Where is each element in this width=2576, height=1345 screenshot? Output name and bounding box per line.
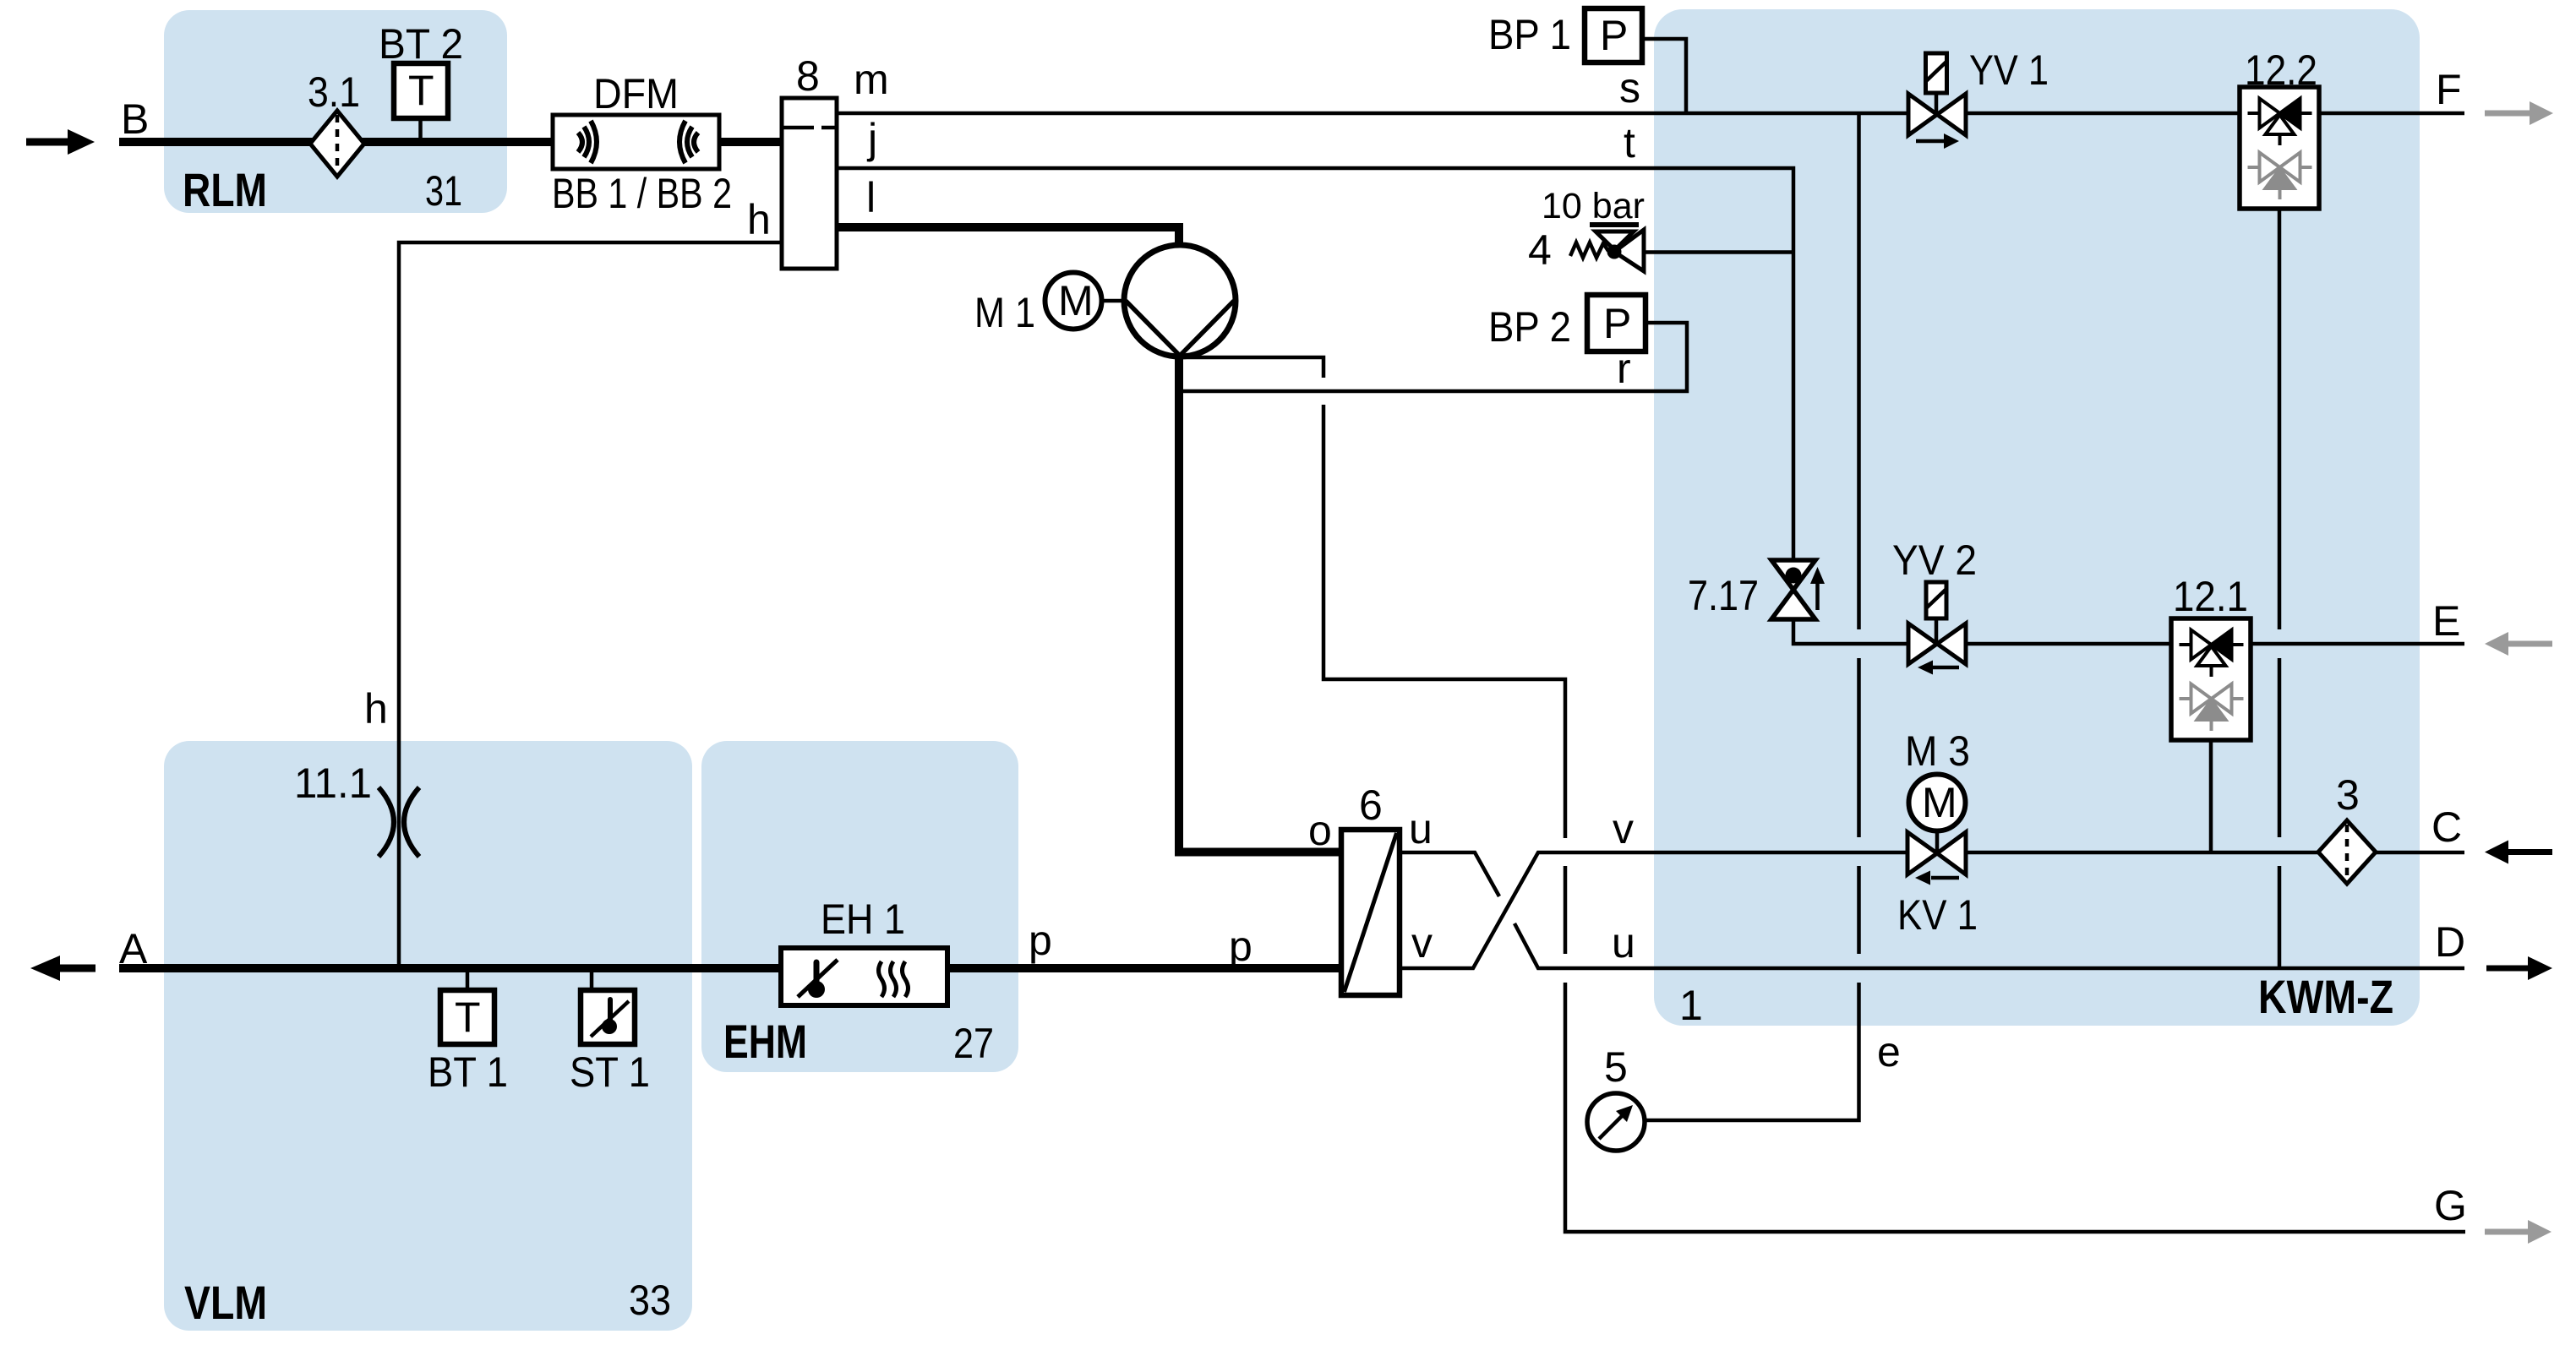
svg-text:KWM-Z: KWM-Z: [2258, 970, 2393, 1023]
motor valve KV 1 with motor M 3: [1907, 775, 1966, 885]
svg-text:VLM: VLM: [184, 1276, 267, 1329]
svg-text:e: e: [1877, 1028, 1901, 1075]
svg-text:3.1: 3.1: [308, 68, 360, 116]
svg-text:BT 1: BT 1: [428, 1048, 508, 1096]
svg-text:p: p: [1029, 917, 1052, 964]
svg-text:u: u: [1409, 805, 1433, 852]
valve assembly 12.2: [2240, 87, 2319, 209]
wire e: port F branch down to gauge 5 (with crossing hops): [1857, 113, 1861, 629]
svg-text:P: P: [1603, 300, 1631, 347]
wire BP 1 sensing line: [1642, 39, 1686, 113]
pipe break symbol 11.1: [379, 787, 419, 857]
filter 3 (diamond with dashed line): [2318, 820, 2376, 884]
svg-text:E: E: [2432, 597, 2460, 645]
svg-text:11.1: 11.1: [294, 760, 372, 807]
svg-text:C: C: [2431, 803, 2462, 851]
svg-text:27: 27: [953, 1020, 994, 1067]
wire m-s-F: distributor 8 to port F: [837, 112, 2464, 116]
port arrow A (outlet, black): [30, 956, 60, 981]
svg-text:v: v: [1411, 919, 1433, 967]
svg-text:u: u: [1612, 919, 1635, 967]
svg-text:l: l: [866, 174, 876, 221]
port arrow C (inlet, black): [2485, 841, 2508, 864]
svg-text:j: j: [866, 115, 877, 162]
svg-text:BB 1 / BB 2: BB 1 / BB 2: [552, 170, 732, 217]
distributor 8 (vertical vessel): [782, 98, 837, 269]
temperature sensor BT 1: [440, 972, 494, 1044]
wire A: outlet line through EH 1 (thick) node A: [119, 964, 783, 972]
wire l: distributor 8 to pump M1 (thick): [837, 227, 1179, 248]
module box KWM-Z: [1654, 9, 2420, 1026]
svg-text:RLM: RLM: [183, 163, 267, 216]
svg-text:r: r: [1617, 345, 1631, 392]
wire p: EH 1 to heat exchanger 6 (thick): [945, 964, 1344, 972]
svg-text:5: 5: [1604, 1043, 1628, 1091]
svg-text:BT 2: BT 2: [379, 20, 463, 68]
module box EHM: [701, 741, 1018, 1072]
module box RLM: [164, 10, 507, 213]
svg-text:10 bar: 10 bar: [1542, 186, 1645, 226]
svg-text:8: 8: [796, 52, 820, 100]
wire h: distributor 8 down to line A: [399, 242, 780, 968]
pump M 1: [1045, 245, 1236, 357]
svg-text:4: 4: [1528, 226, 1552, 274]
svg-text:12.2: 12.2: [2245, 46, 2317, 94]
svg-text:G: G: [2434, 1182, 2467, 1229]
port arrow E (inlet, gray): [2485, 632, 2508, 656]
wire v: heat exchanger 6 to port C (crossing up): [1400, 852, 2464, 968]
svg-text:p: p: [1229, 923, 1253, 970]
svg-text:KV 1: KV 1: [1897, 891, 1978, 939]
wire B inlet line (thick) node B: [119, 138, 553, 146]
wire relief valve 4 outlet: [1644, 250, 1793, 254]
svg-text:B: B: [121, 95, 149, 143]
svg-text:EH 1: EH 1: [821, 896, 905, 943]
wire r: BP 2 sensing line to pump outlet: [1180, 323, 1687, 391]
svg-text:12.1: 12.1: [2173, 573, 2248, 620]
svg-text:h: h: [747, 196, 771, 243]
port arrow D (outlet, black): [2486, 966, 2528, 972]
heat exchanger 6: [1341, 830, 1400, 995]
relief valve 4 (10 bar): [1570, 225, 1644, 271]
svg-text:D: D: [2435, 918, 2465, 966]
flow meter DFM (ultrasonic): [553, 115, 719, 169]
svg-text:ST 1: ST 1: [570, 1048, 650, 1096]
svg-text:t: t: [1624, 119, 1635, 166]
svg-text:DFM: DFM: [593, 70, 679, 117]
temperature sensor BT 2: [394, 63, 448, 139]
svg-text:BP 2: BP 2: [1488, 303, 1571, 351]
svg-text:A: A: [119, 925, 148, 972]
valve assembly 12.1: [2171, 618, 2251, 740]
solenoid valve YV 1: [1908, 53, 1966, 149]
svg-text:6: 6: [1359, 781, 1383, 829]
svg-text:M: M: [1922, 779, 1957, 826]
svg-text:s: s: [1619, 64, 1640, 112]
svg-text:YV 2: YV 2: [1892, 536, 1977, 584]
svg-text:F: F: [2436, 66, 2462, 113]
svg-text:m: m: [854, 56, 889, 103]
pressure gauge 5: [1587, 1093, 1645, 1151]
port arrow G (outlet, gray): [2485, 1229, 2528, 1235]
heater EH 1: [781, 948, 947, 1005]
check valve 7.17: [1771, 560, 1825, 619]
wire j-t: distributor 8 to KWM-Z, turns down to valve 7.17: [837, 168, 1793, 560]
svg-text:1: 1: [1679, 982, 1703, 1029]
svg-text:7.17: 7.17: [1688, 572, 1759, 619]
wire E: valve 7.17 bottom, through YV 2 and 12.1 to port E: [1793, 619, 2464, 644]
wire u: heat exchanger 6 to port D (crossing down, broken at hop): [1400, 852, 1499, 896]
module box VLM: [164, 741, 692, 1331]
wire DFM to distributor 8 (thick): [719, 138, 782, 146]
svg-text:31: 31: [425, 167, 462, 215]
svg-text:o: o: [1308, 807, 1332, 854]
svg-text:T: T: [455, 994, 481, 1041]
svg-text:v: v: [1613, 805, 1634, 852]
svg-text:T: T: [408, 67, 434, 114]
svg-text:33: 33: [629, 1277, 671, 1324]
svg-text:YV 1: YV 1: [1969, 46, 2049, 94]
svg-text:P: P: [1600, 12, 1628, 59]
svg-text:h: h: [364, 685, 388, 732]
filter 3.1 (diamond with dashed line): [310, 111, 364, 177]
wire 12.1 drain down to line C: [2209, 742, 2213, 852]
wire pump recirculation to port G (with crossing hops): [1180, 357, 1323, 378]
solenoid valve YV 2: [1908, 582, 1966, 675]
wire 12.2 drain down to line D (with crossing hops): [2278, 209, 2282, 629]
svg-text:BP 1: BP 1: [1488, 11, 1571, 58]
port arrow B (inlet, black): [26, 139, 68, 146]
svg-text:M: M: [1058, 277, 1094, 324]
pressure sensor BP 1: [1585, 8, 1642, 63]
wire o: pump M1 outlet down and to heat exchanger 6 (thick): [1179, 353, 1344, 852]
pressure sensor BP 2: [1587, 295, 1645, 351]
svg-text:M 1: M 1: [974, 289, 1035, 336]
temperature switch ST 1: [581, 972, 635, 1044]
svg-text:EHM: EHM: [723, 1015, 807, 1068]
port arrow F (outlet, gray): [2485, 111, 2530, 117]
svg-text:M 3: M 3: [1905, 727, 1970, 775]
svg-text:3: 3: [2336, 771, 2360, 819]
